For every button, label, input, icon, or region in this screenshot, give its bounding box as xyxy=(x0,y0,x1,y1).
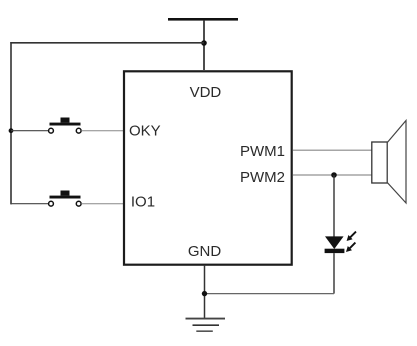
wire S1 to OKY pin xyxy=(81,130,123,132)
wire to S2 left xyxy=(11,203,48,205)
LED D1 xyxy=(325,232,356,253)
svg-text:GND: GND xyxy=(188,243,222,260)
wire bottom horizontal xyxy=(205,293,335,295)
wire PWM1 to speaker xyxy=(293,149,372,151)
svg-text:PWM2: PWM2 xyxy=(240,169,285,186)
switch S1 xyxy=(49,118,82,134)
power rail bar xyxy=(168,18,238,21)
switch S2 xyxy=(49,191,82,207)
svg-text:PWM1: PWM1 xyxy=(240,143,285,160)
node LED junction xyxy=(331,172,337,178)
wire to S1 left xyxy=(11,130,48,132)
svg-text:IO1: IO1 xyxy=(131,194,155,211)
node VDD junction xyxy=(201,40,207,46)
IC U1 xyxy=(124,71,292,264)
wire LED cathode xyxy=(333,253,335,294)
ground xyxy=(186,319,226,332)
wire top horizontal xyxy=(10,42,204,44)
wire PWM2 to speaker xyxy=(293,174,372,176)
wire left vertical xyxy=(10,42,12,204)
svg-text:VDD: VDD xyxy=(190,84,222,101)
wire VDD vertical xyxy=(203,21,205,70)
wire S2 to IO1 pin xyxy=(81,203,123,205)
wire LED anode xyxy=(333,175,335,238)
node button1 junction xyxy=(9,128,14,133)
svg-text:OKY: OKY xyxy=(129,123,161,140)
node GND junction xyxy=(202,291,207,296)
speaker LS1 xyxy=(372,121,406,204)
wire GND vertical xyxy=(204,265,206,319)
